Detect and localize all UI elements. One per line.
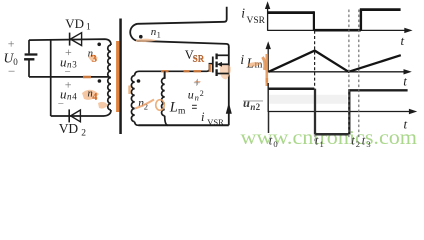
svg-text:2: 2 [81, 128, 86, 138]
orange dash on secondary rail c [194, 70, 202, 72]
plot3 y-axis extension below [268, 112, 270, 134]
plot2 x-axis [268, 71, 404, 73]
svg-text:2: 2 [200, 89, 204, 98]
wire left branch vertical [50, 39, 52, 116]
current arrow iVSR [226, 102, 232, 113]
orange dash on middle rail [83, 76, 91, 79]
svg-text:3: 3 [366, 139, 370, 149]
orange mark Lm top lead [163, 72, 165, 79]
svg-text:SR: SR [192, 55, 204, 65]
plot3 wave low [315, 133, 349, 136]
svg-text:1: 1 [86, 23, 91, 33]
plot3 x-axis arrow [409, 109, 417, 114]
svg-text:−: − [58, 98, 64, 110]
plot3 x-axis [268, 111, 410, 113]
svg-text:1: 1 [157, 30, 161, 39]
plot1 x-axis [268, 29, 406, 31]
winding Lm bottom corner [165, 116, 168, 126]
plot2 y-axis [267, 47, 269, 72]
mosfet VSR body stub [221, 63, 229, 65]
transformer core bar [119, 19, 122, 135]
plot2 y-axis arrow [266, 41, 271, 49]
label n4 [82, 89, 99, 104]
grey band plot3 [269, 95, 348, 104]
svg-text:n: n [195, 93, 199, 103]
orange core stroke [116, 41, 119, 112]
svg-text:t: t [315, 133, 319, 147]
plot2 triangle wave [269, 51, 401, 72]
mosfet VSR drain-source wire [228, 47, 230, 125]
plot2 x-axis arrow [404, 69, 412, 74]
orange scribble on iLm label [248, 62, 263, 67]
svg-text:i: i [240, 52, 244, 67]
svg-text:VD: VD [65, 16, 84, 31]
plot1 y-axis [267, 8, 269, 31]
svg-text:−: − [8, 64, 15, 79]
grey strike through un2 label [243, 100, 263, 102]
svg-text:3: 3 [72, 60, 77, 70]
svg-text:VD: VD [59, 121, 79, 136]
svg-text:t: t [362, 133, 366, 147]
orange dash beside n2 winding [128, 86, 130, 95]
diode VD1 [70, 33, 82, 46]
dashed line t3 [358, 10, 360, 140]
svg-text:2: 2 [356, 139, 360, 149]
svg-text:2: 2 [256, 102, 261, 112]
winding Lm [162, 71, 165, 116]
winding n2 bottom corner [135, 122, 139, 126]
winding n1 loop top stub [138, 7, 227, 24]
wire secondary bottom rail [139, 124, 229, 126]
winding n3 n4 [108, 45, 111, 110]
svg-text:i: i [241, 6, 245, 21]
orange stroke along plot2 axis [265, 54, 268, 86]
plot3 wave rise [348, 90, 350, 134]
plot3 y-axis [267, 83, 269, 112]
mosfet VSR drain stub [217, 54, 229, 56]
mosfet VSR body arrow [217, 62, 222, 67]
orange scribble on mosfet [220, 65, 231, 80]
svg-text:t: t [351, 133, 355, 147]
plot1 wave rise [360, 10, 362, 31]
svg-text:t: t [269, 133, 273, 147]
dashed line t2 [348, 10, 350, 140]
plot3 wave high1 [268, 87, 314, 90]
svg-text:0: 0 [273, 139, 277, 149]
label n3 [88, 49, 98, 66]
orange dash on secondary rail a [161, 70, 169, 72]
dashed line t1 lower [314, 135, 316, 142]
battery U0 top lead [28, 40, 30, 53]
svg-text:u: u [188, 87, 194, 101]
plot1 y-axis arrow [265, 1, 270, 9]
svg-text:VSR: VSR [207, 117, 224, 127]
svg-text:t: t [404, 117, 408, 132]
wire top rail primary [29, 39, 111, 45]
battery U0 bottom lead [28, 60, 30, 77]
svg-text:VSR: VSR [247, 16, 266, 26]
svg-text:t: t [401, 33, 405, 48]
svg-text:4: 4 [92, 92, 98, 103]
winding n1 loop bottom [138, 41, 229, 48]
orange mark gate corner [209, 64, 212, 72]
svg-text:u: u [243, 96, 250, 110]
wire secondary top rail [135, 64, 213, 76]
orange dash on secondary rail b [184, 70, 190, 72]
wire bottom rail primary [51, 110, 111, 116]
mosfet VSR channel segments [215, 54, 217, 77]
svg-text:L: L [169, 100, 178, 116]
svg-text:i: i [201, 110, 205, 124]
svg-text:+: + [194, 75, 201, 89]
label n2 [135, 97, 154, 111]
battery U0 negative plate [24, 58, 34, 60]
orange circle left of Lm [156, 100, 165, 111]
winding n1 loop left cap [130, 24, 137, 41]
plot3 wave high2 [348, 89, 407, 91]
plot1 wave high2 [360, 8, 401, 11]
svg-text:1: 1 [320, 139, 324, 149]
orange scribble under n1 dot [136, 39, 157, 42]
node dot n4 [98, 79, 102, 83]
orange mark plot3 axis top [265, 78, 268, 83]
orange scribble winding n4 bottom [98, 102, 108, 109]
plot1 wave high1 [268, 11, 314, 14]
dashed line t1 [314, 31, 316, 89]
mosfet VSR gate bar [212, 57, 214, 73]
node dot n3 [97, 43, 101, 47]
plot3 wave drop [314, 89, 316, 135]
wire middle rail [29, 76, 109, 78]
diode VD2 [69, 109, 80, 122]
battery U0 positive plate [25, 53, 38, 55]
plot1 wave drop [313, 11, 315, 30]
svg-text:4: 4 [72, 92, 77, 102]
winding n2 [131, 76, 134, 122]
svg-text:+: + [8, 37, 15, 51]
mosfet VSR source stub [217, 73, 229, 75]
plot1 wave low [314, 29, 361, 32]
svg-text:−: − [65, 66, 71, 78]
mark after Lm [192, 105, 197, 108]
node dot n1 [139, 35, 143, 39]
plot1 x-axis arrow [404, 28, 412, 33]
node dot n2 [137, 79, 141, 83]
svg-text:www.cntronics.com: www.cntronics.com [241, 127, 418, 149]
svg-text:m: m [178, 107, 186, 117]
svg-text:t: t [403, 74, 407, 89]
